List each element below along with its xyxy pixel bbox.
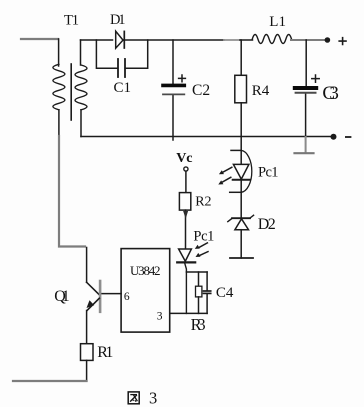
svg-text:C2: C2 bbox=[192, 82, 210, 99]
svg-text:C3: C3 bbox=[322, 83, 339, 104]
svg-text:Pc1: Pc1 bbox=[193, 228, 214, 244]
svg-text:6: 6 bbox=[124, 291, 130, 303]
svg-text:D1: D1 bbox=[110, 12, 126, 28]
svg-text:R4: R4 bbox=[252, 83, 270, 99]
svg-text:3: 3 bbox=[149, 389, 157, 407]
svg-text:Vc: Vc bbox=[176, 151, 192, 166]
svg-text:Q1: Q1 bbox=[54, 288, 69, 305]
svg-text:T1: T1 bbox=[64, 12, 79, 28]
svg-text:C1: C1 bbox=[114, 80, 132, 96]
svg-text:R1: R1 bbox=[97, 344, 113, 361]
svg-text:R2: R2 bbox=[195, 194, 211, 209]
svg-text:C4: C4 bbox=[216, 285, 234, 301]
svg-text:D2: D2 bbox=[258, 216, 276, 233]
svg-text:Pc1: Pc1 bbox=[258, 165, 279, 181]
svg-text:3: 3 bbox=[157, 310, 163, 322]
svg-text:L1: L1 bbox=[269, 14, 286, 30]
svg-text:R3: R3 bbox=[191, 315, 206, 334]
svg-text:U3842: U3842 bbox=[130, 263, 161, 278]
